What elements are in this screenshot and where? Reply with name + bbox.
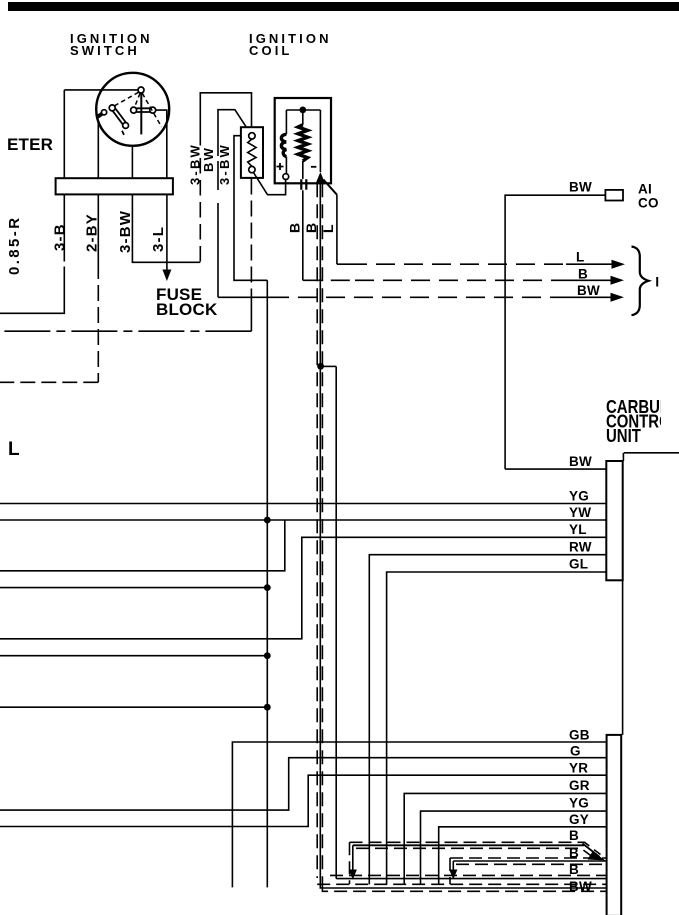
arrow B2 into shield: [449, 870, 457, 880]
switch contact mid: [131, 107, 137, 113]
arrow B: [611, 276, 625, 285]
arrow BW: [611, 293, 625, 302]
carb unit left edge mid: [622, 580, 624, 735]
resistor block: [241, 127, 263, 178]
wire left into V1 (1): [0, 587, 267, 589]
arrow B1 into shield: [349, 870, 357, 880]
switch link bar 1: [113, 109, 127, 126]
wire 3-B upper vertical: [63, 90, 65, 178]
shield B3 dashed top: [330, 874, 607, 876]
wire 3-BW loop top: [200, 93, 251, 146]
wire BW top right: [505, 195, 605, 469]
svg-text:G: G: [570, 744, 581, 759]
wire YG lower: [421, 811, 607, 884]
svg-text:BW: BW: [569, 454, 592, 469]
svg-text:GL: GL: [569, 557, 588, 572]
shield B1 dashed bottom: [356, 848, 592, 856]
coil primary winding: [281, 134, 286, 156]
wire 3-BW dashed mid: [199, 158, 201, 262]
svg-text:0.85-R: 0.85-R: [6, 216, 23, 275]
wire 3-BW lower: [132, 194, 200, 262]
svg-text:RW: RW: [569, 540, 592, 555]
node V1-587: [264, 584, 271, 591]
minus sign: [311, 166, 317, 168]
wire B solid at arrow: [565, 279, 612, 281]
plus sign: [277, 163, 284, 170]
svg-text:3-BW: 3-BW: [117, 210, 134, 253]
wire resistor drop dashed: [250, 179, 252, 297]
coil primary to plus terminal: [285, 157, 287, 174]
wire B1 drop: [352, 845, 354, 872]
svg-text:BLOCK: BLOCK: [156, 300, 218, 319]
wire B3 bus: [336, 878, 606, 880]
wire YW: [0, 519, 606, 521]
switch dashed throw mid: [135, 93, 140, 107]
wire BW bottom: [320, 884, 606, 888]
switch contact left-upper: [109, 105, 115, 111]
wire B to brace (dashed): [303, 279, 565, 281]
svg-text:ETER: ETER: [7, 135, 53, 154]
wire B (solid) drop: [302, 190, 304, 280]
svg-text:L: L: [8, 439, 20, 460]
shield B2 dashed top: [450, 857, 607, 859]
coil secondary winding: [298, 125, 308, 161]
wire 2-BY lower: [97, 194, 99, 263]
svg-text:SWITCH: SWITCH: [70, 43, 140, 58]
svg-text:BW: BW: [577, 283, 600, 298]
wire 3-BW third: [234, 136, 267, 281]
connector carb unit upper: [606, 461, 622, 580]
svg-text:3-B: 3-B: [52, 223, 69, 251]
resistor top terminal: [249, 133, 255, 139]
connector bar (switch base): [56, 178, 173, 194]
arrow fuse block: [162, 270, 171, 282]
node YW / V1: [264, 517, 271, 524]
svg-text:GY: GY: [569, 812, 589, 827]
wire B2 drop: [452, 861, 454, 872]
svg-text:BW: BW: [569, 180, 592, 195]
coil primary lead: [285, 110, 287, 134]
HT lead shield dashed left: [316, 183, 318, 878]
shield B1 dashed top: [350, 842, 601, 854]
wire L drop: [336, 195, 338, 265]
coil minus lead: [319, 110, 321, 172]
switch actuator stem: [140, 93, 142, 134]
svg-text:L: L: [320, 224, 336, 233]
wire L solid at arrow: [566, 263, 613, 265]
carb control unit box top: [623, 453, 679, 461]
plus terminal: [283, 174, 289, 180]
wire left into V1 (2): [0, 655, 267, 657]
arrow L: [612, 260, 626, 269]
HT lead shield dashed right: [321, 183, 323, 884]
coil secondary lead: [302, 110, 304, 125]
coil secondary lower lead: [302, 161, 304, 179]
wire V1 long: [266, 280, 268, 887]
resistor bottom terminal: [249, 166, 255, 172]
wire GB: [232, 742, 606, 887]
svg-text:YG: YG: [569, 796, 589, 811]
svg-text:GR: GR: [569, 778, 590, 793]
wire switch top to 3-B drop: [64, 89, 138, 91]
svg-text:YW: YW: [569, 505, 591, 520]
switch contact link1 end: [123, 123, 129, 129]
svg-text:L: L: [576, 250, 585, 265]
shield B1 left edge: [349, 842, 351, 884]
arrow B1 to connector: [588, 852, 606, 861]
wire YL: [0, 537, 606, 639]
wire BW solid at arrow: [565, 296, 612, 298]
svg-text:CO: CO: [638, 196, 659, 211]
ignition coil T1 box: [275, 98, 331, 183]
wire GY: [439, 827, 607, 885]
svg-text:COIL: COIL: [249, 43, 292, 58]
wire left into V1 (3): [0, 706, 267, 708]
shield B2 dashed bottom: [456, 863, 607, 865]
wire G: [0, 758, 607, 810]
wire resistor to coil plus: [254, 173, 286, 195]
ignition coil label: [249, 31, 332, 58]
svg-text:B: B: [303, 223, 319, 233]
wire left branch to YW: [0, 520, 285, 571]
wire minus to L drop: [323, 180, 337, 195]
svg-text:B: B: [578, 267, 588, 282]
wire 3-B lower: [0, 194, 64, 313]
condenser plates: [301, 179, 306, 190]
svg-text:BW: BW: [201, 146, 216, 172]
resistor element: [248, 139, 256, 166]
node V1-655: [264, 652, 271, 659]
wire switch lower-left to bar: [97, 122, 99, 179]
svg-text:GB: GB: [569, 728, 590, 743]
wire switch right contact to 3-L: [156, 110, 167, 178]
switch contact top: [138, 87, 144, 93]
wire GR: [404, 793, 607, 884]
switch contact right: [150, 107, 156, 113]
wire switch bottom to bar: [131, 146, 133, 178]
HT lead solid: [319, 184, 321, 884]
ignition switch S1 body: [96, 73, 169, 146]
minus terminal arrow: [316, 172, 326, 184]
tick after brace: [656, 277, 658, 287]
switch dash tick below link1: [122, 131, 124, 135]
shield BW dashed bottom: [322, 884, 606, 891]
svg-text:YL: YL: [569, 522, 587, 537]
wire BW into unit: [505, 468, 606, 470]
svg-text:YR: YR: [569, 761, 588, 776]
node HT tap: [317, 363, 324, 370]
svg-text:AI: AI: [638, 182, 652, 197]
ignition switch label: [70, 31, 153, 58]
switch dashed throw right: [142, 93, 161, 127]
wire resistor drop solid: [250, 296, 252, 331]
svg-text:3-BW: 3-BW: [217, 143, 232, 185]
svg-text:3-L: 3-L: [150, 226, 167, 252]
wire RW: [369, 555, 606, 885]
wire YR: [0, 775, 607, 826]
wire BW to brace (dashed): [270, 296, 565, 298]
svg-text:UNIT: UNIT: [606, 426, 641, 447]
connector carb unit lower: [607, 735, 622, 915]
wire 2-BY dashed drop: [97, 263, 99, 382]
shield BW dashed top: [317, 883, 606, 885]
wire GL: [387, 572, 607, 884]
wire L to brace (dashed): [337, 263, 566, 265]
svg-text:BW: BW: [569, 879, 592, 894]
svg-text:B: B: [569, 862, 579, 877]
switch link bar 2: [136, 108, 150, 112]
border bar top: [8, 2, 679, 11]
wire dash-dot to left edge: [0, 330, 251, 332]
svg-text:YG: YG: [569, 489, 589, 504]
svg-text:B: B: [287, 223, 303, 233]
switch contact left-edge: [102, 110, 107, 115]
coil internal top node: [299, 107, 306, 114]
switch stub left: [97, 114, 103, 118]
node V1-707: [264, 704, 271, 711]
switch dashed throw left: [115, 92, 139, 106]
label FUSE BLOCK: [156, 285, 218, 319]
wire YG: [0, 503, 606, 505]
shield B2 left edge: [449, 858, 451, 884]
svg-text:B: B: [569, 846, 579, 861]
wire B1: [353, 844, 600, 857]
wire 2-BY dashed to left edge: [0, 381, 98, 383]
wire BW inner loop: [218, 110, 251, 298]
brace harness: [632, 247, 649, 316]
coil internal top wire: [286, 109, 320, 111]
wire V4 long drop: [335, 366, 337, 878]
svg-text:B: B: [569, 828, 579, 843]
wire BW corner from inner loop: [218, 296, 270, 298]
connector air valve: [605, 190, 623, 201]
wire 3-L to fuse block: [166, 194, 168, 269]
wire HT tap branch: [321, 365, 337, 367]
label carburetor control unit: [606, 397, 671, 447]
wire B2: [453, 860, 606, 862]
